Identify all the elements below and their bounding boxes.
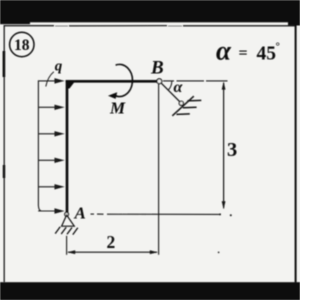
pin A hatch 1: [55, 227, 60, 234]
scan black band top: [0, 0, 300, 22]
load arrow 3: [38, 133, 56, 135]
svg-text:2: 2: [107, 232, 116, 252]
svg-text:M: M: [109, 99, 126, 118]
load arrow 2: [38, 106, 56, 108]
load arrow 6: [38, 210, 56, 212]
speck dot near extension end: [230, 214, 232, 216]
moment M arrowhead: [108, 92, 117, 99]
svg-text:B: B: [150, 58, 164, 79]
svg-text:45: 45: [257, 43, 277, 64]
frame bar top horizontal to B: [66, 80, 158, 83]
svg-text:3: 3: [227, 139, 237, 161]
svg-text:A: A: [74, 204, 86, 223]
pin B circle: [157, 79, 162, 84]
extension line right of B: [163, 80, 228, 82]
label q leader hook: [46, 72, 54, 87]
extension line below B: [158, 84, 160, 255]
load arrow 4: [38, 159, 56, 161]
roller circle: [179, 101, 183, 105]
pin A hatch 3: [67, 228, 72, 235]
svg-text:°: °: [276, 41, 280, 53]
hatch stroke 1: [187, 99, 201, 102]
cell border left: [3, 25, 5, 282]
load arrow 5: [38, 186, 56, 188]
svg-text:α: α: [174, 79, 184, 96]
hatch stroke 2: [183, 106, 197, 109]
svg-text:α: α: [216, 36, 232, 66]
cell border right: [295, 22, 297, 282]
corner fillet: [68, 80, 76, 89]
dim3 arrow up: [222, 82, 226, 90]
dim3 arrow down: [222, 201, 226, 209]
cell border top: [4, 25, 296, 27]
speck dot right of dim2: [218, 252, 220, 254]
roller link from B: [161, 83, 180, 102]
extension line right of A dashed: [91, 213, 220, 215]
hatch stroke 3: [176, 113, 189, 116]
extension tick below A: [66, 236, 68, 255]
load arrow 1: [38, 79, 62, 213]
pin A hatch 2: [61, 227, 66, 234]
dim2 arrow right: [150, 250, 158, 254]
pin A circle: [65, 212, 69, 216]
angle alpha arc at B: [168, 81, 172, 90]
svg-text:=: =: [239, 45, 248, 62]
dimension 3 vertical line: [223, 83, 225, 209]
moment M arc: [113, 64, 133, 96]
problem number circle 18: [10, 32, 34, 56]
dim2 arrow left: [67, 250, 75, 254]
roller support surface line: [172, 96, 194, 116]
pin A hatch 4: [73, 228, 78, 235]
svg-text:18: 18: [14, 37, 30, 54]
svg-text:q: q: [55, 59, 63, 75]
dimension 2 line: [68, 251, 157, 253]
pin A triangle: [62, 215, 75, 226]
frame member AB vertical: [66, 80, 69, 213]
scan black band bottom: [0, 282, 300, 300]
distributed load q: left line: [38, 80, 41, 211]
